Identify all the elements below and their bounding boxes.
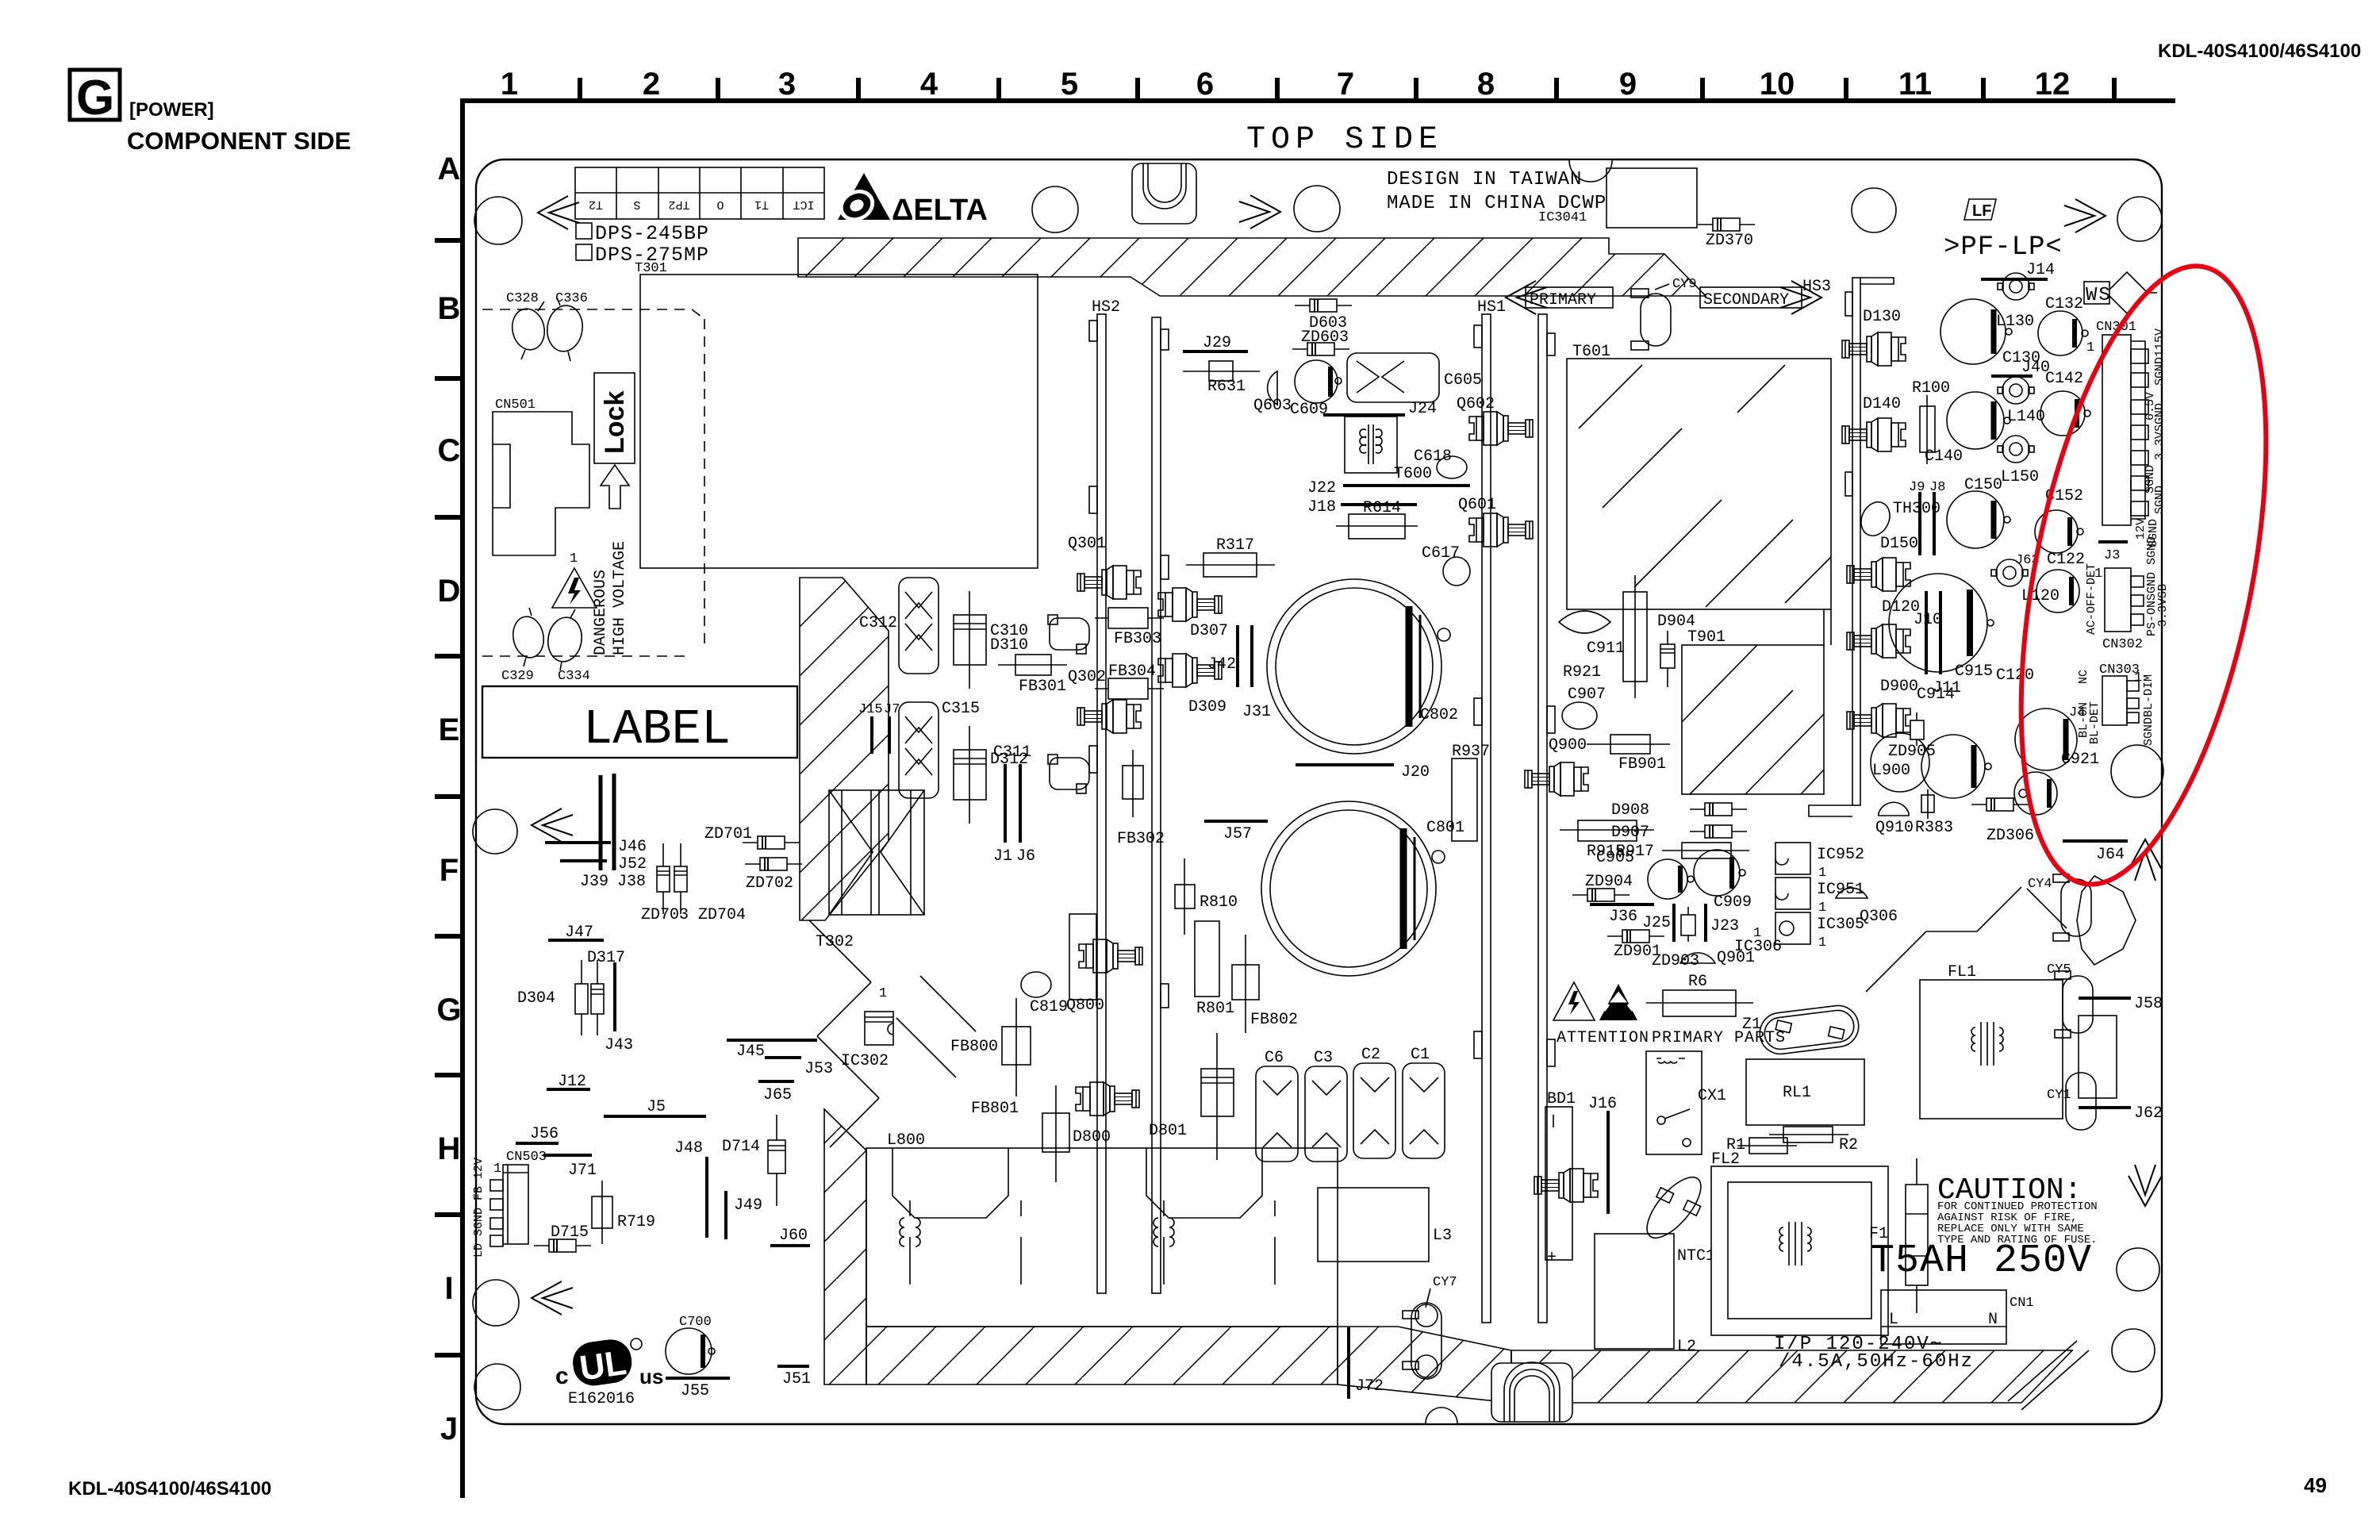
svg-text:D309: D309 (1188, 698, 1226, 716)
octagon shield right (2077, 876, 2136, 965)
svg-text:NTC1: NTC1 (1677, 1247, 1715, 1265)
svg-text:D130: D130 (1863, 308, 1901, 326)
svg-text:4: 4 (920, 67, 939, 102)
svg-text:J24: J24 (1408, 400, 1437, 418)
svg-text:R317: R317 (1216, 536, 1254, 555)
zener ZD603 (1292, 328, 1349, 355)
svg-text:ZD703 ZD704: ZD703 ZD704 (641, 906, 746, 924)
svg-text:J29: J29 (1203, 334, 1231, 352)
resistor R810 (1175, 858, 1238, 935)
svg-text:C700: C700 (679, 1315, 712, 1330)
jumper J71 (543, 1155, 597, 1180)
svg-text:J57: J57 (1223, 825, 1252, 843)
svg-text:C609: C609 (1290, 401, 1328, 419)
capacitor C909 (1694, 850, 1752, 912)
relay RL1 (1646, 1051, 1811, 1154)
capacitor C315 (899, 700, 980, 798)
svg-text:A: A (438, 152, 461, 186)
svg-text:L140: L140 (2007, 408, 2045, 426)
svg-text:c: c (555, 1363, 569, 1389)
svg-text:ATTENTION: ATTENTION (1557, 1029, 1649, 1047)
mounting hole I row (473, 1280, 519, 1326)
svg-text:R921: R921 (1563, 663, 1601, 682)
inductor L150 (1998, 436, 2039, 486)
hatched band bottom (1511, 1350, 2072, 1403)
svg-text:12: 12 (2035, 67, 2071, 102)
svg-text:L3: L3 (1433, 1227, 1452, 1245)
staircase near FL1 (1866, 887, 2067, 992)
transistor Q800 (1066, 914, 1142, 1015)
diode D150 (1847, 535, 1918, 591)
svg-text:C312: C312 (859, 614, 897, 632)
heatsink HS2 second bar (1152, 317, 1169, 1293)
svg-text:L2: L2 (1677, 1338, 1696, 1356)
diode D908 (1611, 801, 1747, 820)
IC IC302 (841, 986, 893, 1070)
diode D603 (1295, 299, 1352, 332)
diode D801 (1149, 1033, 1234, 1160)
svg-text:R631: R631 (1207, 378, 1246, 396)
svg-text:ZD306: ZD306 (1987, 827, 2034, 845)
board designator G box (70, 70, 120, 125)
jumper J43 (605, 962, 633, 1054)
capacitor C6 (1256, 1049, 1298, 1162)
svg-text:CN302: CN302 (2102, 637, 2143, 652)
svg-text:WS: WS (2086, 285, 2112, 306)
svg-text:D150: D150 (1880, 535, 1918, 553)
svg-text:C605: C605 (1444, 371, 1482, 390)
diode D307 (1158, 588, 1228, 640)
svg-text:T600: T600 (1394, 465, 1432, 483)
svg-text:3.3VSB: 3.3VSB (2156, 584, 2170, 627)
svg-text:J53: J53 (804, 1060, 833, 1078)
svg-text:D904: D904 (1657, 613, 1695, 631)
capacitor C334 (545, 609, 590, 684)
resistor R383 (1915, 789, 1953, 837)
svg-text:J71: J71 (568, 1162, 597, 1180)
svg-text:/4.5A,50Hz-60Hz: /4.5A,50Hz-60Hz (1779, 1351, 1974, 1373)
svg-text:D907: D907 (1611, 824, 1649, 842)
svg-text:HIGH VOLTAGE: HIGH VOLTAGE (611, 541, 629, 655)
svg-text:C1: C1 (1411, 1046, 1430, 1064)
transistor Q301 (1068, 535, 1141, 599)
svg-text:Q602: Q602 (1457, 395, 1495, 413)
capacitor C1 (1403, 1046, 1445, 1158)
warning triangle primary (1553, 982, 1595, 1020)
heatsink HS1 second bar (1538, 314, 1555, 1323)
resistor R1 (1726, 1136, 1797, 1154)
jumper J56 (516, 1125, 559, 1143)
capacitor C2 (1353, 1046, 1395, 1158)
svg-text:ZD905: ZD905 (1888, 743, 1936, 761)
jumper J52 (560, 855, 647, 874)
svg-text:J48: J48 (674, 1139, 703, 1158)
svg-text:J8: J8 (1929, 480, 1945, 495)
svg-text:J: J (440, 1411, 458, 1446)
svg-text:N: N (1988, 1311, 1998, 1329)
zener ZD905 (1888, 712, 1936, 761)
heatsink HS2 (1089, 298, 1120, 1293)
svg-text:R6: R6 (1688, 973, 1707, 991)
mounting hole top right (2117, 197, 2162, 241)
checkbox DPS-245BP (576, 222, 709, 245)
jumper J15 (858, 702, 883, 754)
resistor R631 (1183, 361, 1260, 396)
capacitor CY5 (2047, 962, 2093, 1038)
resistor R317 (1186, 536, 1275, 577)
svg-text:PRIMARY: PRIMARY (1530, 291, 1596, 309)
capacitor C152 (2035, 487, 2083, 553)
capacitor C311 (993, 743, 1089, 793)
jumper J6 (1016, 764, 1035, 866)
svg-text:J72: J72 (1355, 1377, 1384, 1396)
transistor Q910 (1875, 802, 1914, 837)
connector CN503 (472, 1150, 547, 1258)
mounting hole top center-left (1032, 186, 1078, 232)
svg-text:1: 1 (570, 551, 578, 566)
svg-text:ΔELTA: ΔELTA (892, 194, 988, 227)
jumper J40 (1991, 359, 2050, 377)
zener ZD904 (1572, 873, 1633, 901)
svg-text:ZD370: ZD370 (1706, 232, 1753, 250)
svg-text:J65: J65 (763, 1086, 792, 1104)
jumper J39 (580, 775, 608, 891)
svg-text:C921: C921 (2061, 751, 2099, 769)
svg-text:SGND: SGND (2153, 486, 2167, 514)
svg-text:D307: D307 (1190, 622, 1228, 640)
zener ZD704 (641, 843, 746, 924)
svg-text:DESIGN IN TAIWAN: DESIGN IN TAIWAN (1387, 169, 1582, 190)
svg-text:F: F (440, 853, 459, 888)
jumper J25 (1642, 904, 1674, 942)
svg-text:Q301: Q301 (1068, 535, 1106, 553)
diode D140 (1842, 395, 1906, 451)
grid ruler horizontal line (463, 98, 2175, 103)
mounting hole bottom right upper (2117, 1248, 2159, 1291)
svg-text:9: 9 (1619, 67, 1637, 102)
mounting hole J row (474, 1364, 520, 1410)
jumper J36 (1590, 904, 1654, 926)
svg-text:CN503: CN503 (506, 1150, 547, 1165)
diode D309 (1158, 654, 1226, 716)
grid row letters (436, 152, 461, 1446)
jumper J11 (1933, 591, 1961, 697)
svg-text:C329: C329 (501, 669, 534, 684)
jumper J57 (1204, 821, 1268, 843)
svg-text:IC951: IC951 (1817, 881, 1864, 899)
jumper J3 (2098, 542, 2128, 563)
svg-text:E162016: E162016 (568, 1390, 635, 1408)
IC IC305 (1775, 912, 1864, 950)
Lock box (594, 373, 635, 463)
svg-text:C909: C909 (1714, 893, 1752, 912)
svg-text:C801: C801 (1426, 819, 1464, 837)
jumper J72 (1349, 1327, 1384, 1399)
svg-text:C315: C315 (942, 700, 980, 718)
svg-text:SGNDBL-DIM: SGNDBL-DIM (2142, 674, 2155, 746)
svg-text:J12: J12 (558, 1073, 586, 1091)
svg-text:J7: J7 (884, 702, 900, 717)
svg-text:J51: J51 (782, 1370, 811, 1388)
inductor L900 (1871, 733, 1929, 792)
text DANGEROUS HIGH VOLTAGE (592, 541, 629, 655)
bridge diode BD1 (1534, 1090, 1598, 1267)
svg-text:J20: J20 (1401, 763, 1430, 782)
svg-text:Z1: Z1 (1742, 1016, 1761, 1034)
svg-text:C328: C328 (506, 291, 539, 306)
arrow at hole I (532, 1281, 573, 1315)
svg-text:FB802: FB802 (1250, 1011, 1298, 1029)
svg-text:+: + (1547, 1249, 1557, 1267)
capacitor C617 (1422, 544, 1470, 586)
svg-text:C336: C336 (555, 291, 588, 306)
transformer T901 (1682, 609, 1831, 794)
svg-text:C911: C911 (1587, 639, 1625, 658)
jumper J42 (1207, 625, 1238, 687)
svg-text:Q603: Q603 (1253, 397, 1292, 415)
svg-text:C915: C915 (1955, 662, 1993, 681)
ferrite bead FB801 (971, 1085, 1069, 1182)
CN301 pin labels (2134, 328, 2167, 547)
svg-text:CY4: CY4 (2028, 877, 2052, 892)
svg-text:J5: J5 (647, 1098, 666, 1116)
svg-text:L150: L150 (2001, 468, 2039, 486)
diode D310 (954, 591, 1028, 689)
capacitor C132 (2038, 295, 2088, 355)
svg-text:B: B (438, 291, 461, 326)
capacitor C329 (501, 608, 547, 684)
resistor R2 (1769, 1127, 1858, 1154)
jumper J49 (726, 1191, 762, 1239)
arrow up right column (2129, 839, 2162, 881)
mounting hole F row (473, 809, 517, 854)
jumper J55 (666, 1378, 730, 1400)
board outline (476, 159, 2162, 1424)
screw boss top center (1132, 163, 1196, 224)
capacitor C312 (859, 578, 939, 674)
transformer T600 (1345, 417, 1432, 483)
ferrite bead FB303 (1095, 608, 1164, 648)
svg-text:us: us (639, 1365, 663, 1388)
svg-text:R801: R801 (1196, 1000, 1234, 1018)
svg-text:5: 5 (1061, 67, 1078, 102)
capacitor C142 (2040, 370, 2090, 436)
svg-text:J39: J39 (580, 873, 608, 891)
warning triangle ESD (1599, 984, 1637, 1020)
jumper J23 (1706, 904, 1739, 942)
svg-text:C132: C132 (2045, 295, 2083, 313)
svg-text:FB303: FB303 (1114, 630, 1161, 648)
arrow at hole A1 (538, 196, 579, 229)
resistor R937 (1452, 743, 1490, 841)
jumper J20 (1296, 763, 1430, 782)
svg-text:J3: J3 (2104, 548, 2120, 563)
svg-text:L130: L130 (1996, 313, 2034, 331)
zener ZD903 (1652, 907, 1699, 970)
heatsink HS3 (1802, 278, 1894, 816)
svg-text:7: 7 (1337, 67, 1354, 102)
svg-text:C334: C334 (558, 669, 590, 684)
diode D900 (1847, 678, 1918, 737)
capacitor C915 (1955, 662, 2077, 770)
lock arrow (601, 465, 629, 509)
svg-text:R383: R383 (1915, 819, 1953, 837)
IC IC951 (1775, 878, 1864, 916)
svg-text:CY5: CY5 (2047, 962, 2071, 977)
capacitor C120 (1889, 574, 2034, 685)
ferrite bead FB302 (1117, 750, 1165, 848)
capacitor C911 (1559, 611, 1625, 658)
secondary transformer zone T601 (1567, 343, 1831, 609)
svg-text:D908: D908 (1611, 801, 1649, 820)
svg-text:CX1: CX1 (1698, 1087, 1726, 1105)
capacitor CY9 (1631, 277, 1697, 350)
svg-text:C617: C617 (1422, 544, 1460, 563)
capacitor CY1 (2047, 1073, 2096, 1130)
svg-text:LF: LF (1972, 202, 1991, 220)
transistor Q306 (1836, 888, 1898, 926)
svg-text:C310: C310 (990, 622, 1028, 640)
connector CN1 (1881, 1290, 2034, 1344)
svg-text:J58: J58 (2134, 995, 2163, 1013)
svg-text:NC: NC (2077, 670, 2090, 684)
connector CN303 (2077, 662, 2155, 746)
resistor R100 (1912, 379, 1950, 464)
board top edge notch (1569, 160, 1612, 182)
transformer T301 (635, 261, 1038, 568)
connector CN501 (493, 397, 589, 555)
hatched band below L800 (866, 1327, 1338, 1384)
svg-text:D304: D304 (517, 989, 555, 1008)
svg-text:C907: C907 (1568, 686, 1606, 704)
svg-text:J56: J56 (530, 1125, 559, 1143)
grid column numbers (501, 67, 2070, 102)
svg-text:J47: J47 (565, 924, 593, 942)
fuse F1 (1869, 1158, 1928, 1313)
board corner diagonal cut lines (2008, 1341, 2089, 1410)
jumper J45 (727, 1040, 817, 1061)
arrow top right (2064, 199, 2106, 232)
svg-text:Q302: Q302 (1068, 668, 1106, 686)
capacitor C336 (544, 291, 588, 361)
svg-text:D714: D714 (722, 1138, 760, 1156)
screw boss bottom (1491, 1362, 1572, 1422)
checkbox DPS-275MP (576, 244, 709, 267)
svg-text:CY7: CY7 (1433, 1275, 1457, 1290)
svg-text:BD1: BD1 (1547, 1090, 1576, 1108)
capacitor C819 (1021, 972, 1068, 1016)
capacitor C310 (990, 615, 1089, 654)
inductor J63 (1991, 553, 2040, 586)
hatched isolation band top (798, 238, 1706, 296)
capacitor CX1 (1698, 1059, 1864, 1125)
svg-text:D140: D140 (1863, 395, 1901, 413)
svg-text:G: G (76, 71, 114, 125)
svg-text:[POWER]: [POWER] (129, 99, 214, 121)
hatched transition right of L800 (1338, 1327, 1511, 1403)
svg-text:J43: J43 (605, 1036, 633, 1054)
svg-text:IC302: IC302 (841, 1052, 889, 1070)
svg-text:6: 6 (1196, 67, 1214, 102)
svg-text:>PF-LP<: >PF-LP< (1944, 232, 2063, 263)
mounting hole bottom right lower (2112, 1329, 2155, 1372)
svg-text:J42: J42 (1207, 655, 1236, 674)
capacitor CY4 (2028, 874, 2091, 941)
arrow right of boss (1239, 195, 1280, 229)
zener ZD901 (1607, 930, 1664, 961)
capacitor CY7 (1403, 1275, 1457, 1379)
ferrite bead FB901 (1587, 735, 1670, 774)
diode D904 (1657, 613, 1695, 687)
mounting hole A1 (474, 197, 522, 244)
jumper J7 (884, 702, 900, 754)
jumper J29 (1183, 334, 1248, 352)
UL recognized mark (555, 1337, 663, 1408)
svg-text:T302: T302 (816, 933, 854, 951)
capacitor C700 (666, 1315, 715, 1374)
hatched wedge mid-left (800, 578, 889, 920)
red inspection ellipse annotation (1977, 246, 2310, 904)
ferrite bead FB304 (1095, 662, 1164, 699)
svg-text:FB800: FB800 (950, 1038, 998, 1056)
grid ruler vertical line (460, 98, 465, 1498)
svg-text:10: 10 (1760, 67, 1795, 102)
diode D907 (1611, 824, 1747, 842)
svg-text:3.3VSGND: 3.3VSGND (2153, 403, 2167, 460)
svg-text:HS3: HS3 (1802, 278, 1831, 296)
svg-text:C3: C3 (1314, 1049, 1333, 1067)
svg-text:C120: C120 (1996, 666, 2034, 685)
jumper J60 (770, 1227, 810, 1246)
svg-text:Q306: Q306 (1860, 908, 1898, 926)
svg-text:I: I (444, 1271, 453, 1306)
svg-text:O: O (716, 198, 724, 211)
svg-text:FB302: FB302 (1117, 830, 1165, 848)
connector CN302 (2085, 536, 2170, 652)
svg-text:J60: J60 (779, 1227, 808, 1245)
resistor R719 (592, 1181, 655, 1244)
svg-text:Lock: Lock (600, 391, 630, 454)
diode D317 (575, 949, 625, 1035)
IC IC952 (1775, 843, 1864, 881)
svg-text:L800: L800 (887, 1131, 925, 1150)
svg-text:J10: J10 (1914, 611, 1942, 629)
svg-text:DANGEROUS: DANGEROUS (592, 570, 610, 655)
capacitor C130 (1940, 299, 2040, 367)
arrow at hole F (532, 808, 573, 842)
capacitor C914 (1917, 686, 1991, 798)
svg-text:CY9: CY9 (1672, 277, 1697, 292)
svg-text:T1: T1 (754, 198, 769, 211)
svg-text:L900: L900 (1872, 762, 1910, 780)
jumper J64 (2063, 841, 2128, 864)
svg-text:CY1: CY1 (2047, 1088, 2071, 1103)
svg-text:J16: J16 (1588, 1095, 1617, 1113)
resistor R915 (1560, 820, 1654, 861)
svg-text:D800: D800 (1073, 1128, 1111, 1146)
svg-text:1: 1 (493, 1162, 501, 1177)
capacitor C140 (1925, 392, 2010, 466)
jumper J62 (2079, 1104, 2163, 1123)
svg-text:C122: C122 (2047, 551, 2085, 569)
varistor Z1 (1742, 1004, 1861, 1057)
jumper J12 (547, 1073, 590, 1091)
svg-text:1: 1 (501, 67, 518, 102)
LF logo (1964, 199, 1996, 220)
svg-text:FB801: FB801 (971, 1100, 1019, 1118)
caution paragraph (1937, 1200, 2098, 1246)
jumper J1 (993, 764, 1012, 866)
